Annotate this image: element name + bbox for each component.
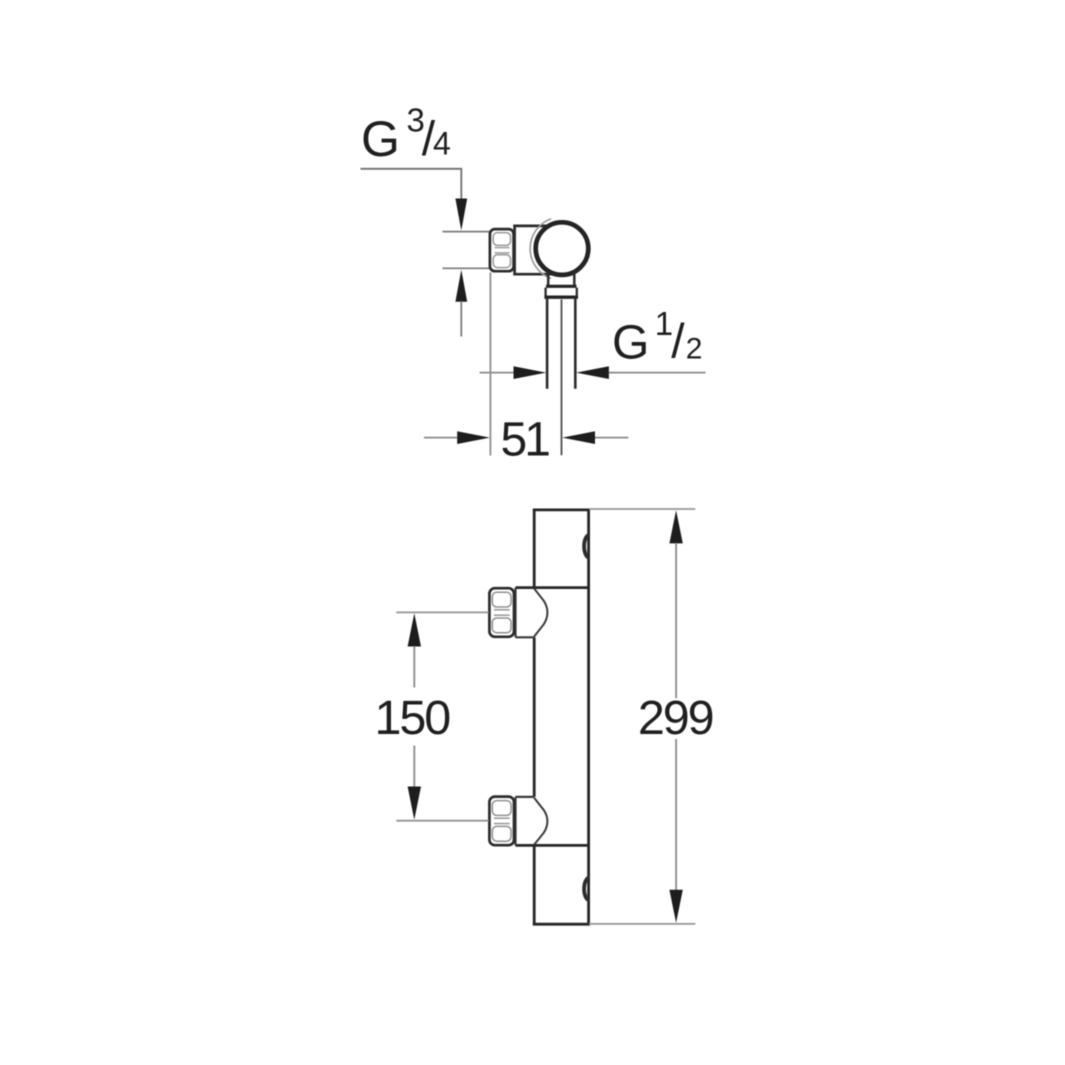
joint line bottom xyxy=(516,844,591,847)
leader line for G 3/4 xyxy=(361,169,462,199)
svg-text:G: G xyxy=(612,317,649,370)
extension line from nut left edge down to 51 dim xyxy=(489,273,491,456)
joint line top xyxy=(516,586,591,589)
label G 3/4 xyxy=(361,102,451,168)
extension line upper (top of G3/4 connector) xyxy=(443,231,490,233)
svg-text:G: G xyxy=(361,111,400,167)
neck band xyxy=(546,285,577,288)
top S-union escutcheon xyxy=(516,588,548,638)
svg-text:4: 4 xyxy=(433,126,451,162)
tail of up arrow xyxy=(460,301,462,337)
299 extension line top xyxy=(589,508,695,510)
bar body outline xyxy=(533,510,590,924)
svg-text:2: 2 xyxy=(686,333,703,366)
bottom union nut (front) xyxy=(489,797,514,846)
collar band xyxy=(544,296,578,299)
label G 1/2 xyxy=(612,305,702,370)
valve body xyxy=(515,226,556,274)
top union nut (front) xyxy=(489,588,514,637)
150 extension line top xyxy=(396,611,489,613)
outlet pipe xyxy=(546,299,549,389)
collar xyxy=(544,288,546,296)
G 1/2 dimension line right xyxy=(576,366,609,379)
150 extension line bottom xyxy=(396,820,489,822)
svg-text:51: 51 xyxy=(501,413,550,466)
dimension 51 xyxy=(424,437,457,439)
arrowhead down to top face line xyxy=(455,199,467,231)
knob detail top (half ellipse on right edge) xyxy=(584,535,589,558)
body shoulder arc behind cartridge xyxy=(530,219,551,279)
neck below cartridge xyxy=(547,273,550,286)
knob detail bottom xyxy=(584,878,589,901)
bottom S-union escutcheon xyxy=(516,797,548,846)
svg-text:150: 150 xyxy=(375,691,451,745)
dimension 299 xyxy=(669,510,682,923)
thermostat cartridge circle xyxy=(536,222,589,275)
svg-text:299: 299 xyxy=(638,691,713,745)
union nut (side view) xyxy=(490,229,514,271)
extension line lower (bottom of G3/4 connector) xyxy=(443,267,490,269)
svg-text:/: / xyxy=(671,316,685,369)
G 1/2 dimension line left xyxy=(480,372,514,374)
pipe inner line / centerline xyxy=(561,300,563,456)
299 extension line bottom xyxy=(589,923,695,925)
arrowhead up to bottom face line xyxy=(455,270,467,302)
dimension 150 xyxy=(408,613,421,820)
